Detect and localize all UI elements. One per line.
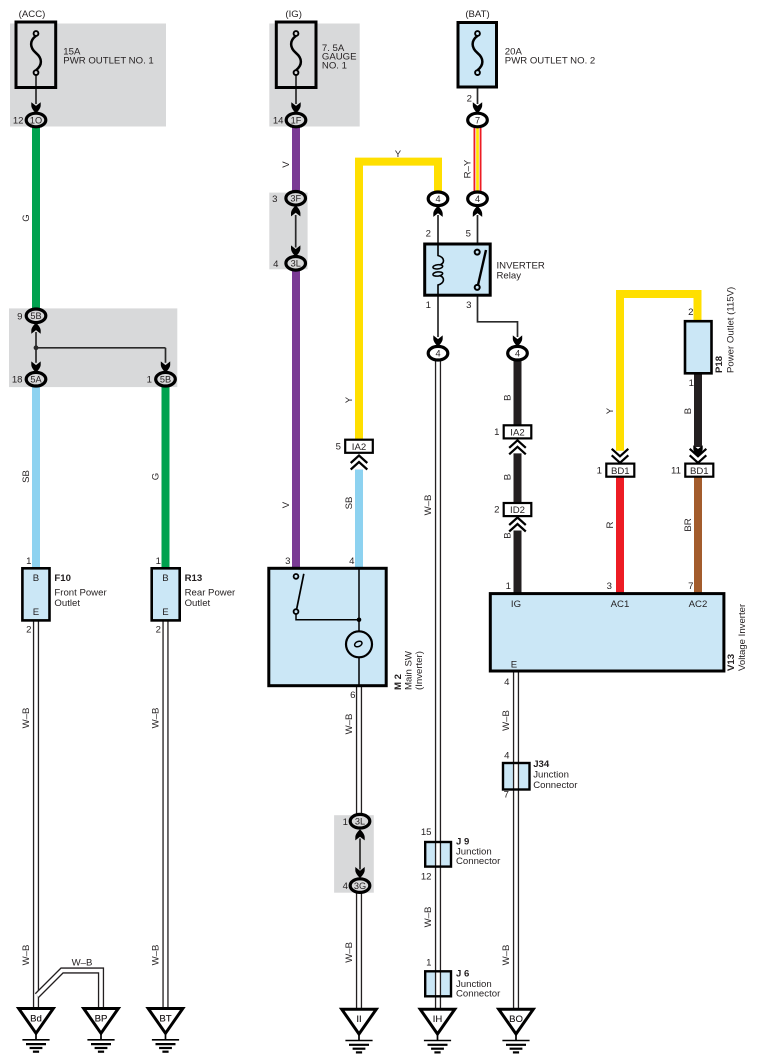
svg-text:1: 1	[426, 300, 431, 311]
svg-text:5: 5	[336, 441, 341, 452]
svg-text:ID2: ID2	[510, 505, 525, 516]
svg-text:B: B	[503, 532, 514, 538]
svg-text:V: V	[281, 501, 292, 508]
svg-text:E: E	[33, 607, 39, 618]
svg-text:1O: 1O	[30, 115, 42, 125]
svg-text:5: 5	[466, 228, 471, 239]
svg-text:1: 1	[494, 427, 499, 438]
svg-text:3L: 3L	[291, 259, 301, 269]
svg-text:IA2: IA2	[510, 428, 524, 439]
svg-text:W–B: W–B	[344, 714, 355, 735]
svg-text:Connector: Connector	[456, 856, 501, 867]
svg-text:BP: BP	[95, 1014, 108, 1025]
svg-text:Connector: Connector	[456, 988, 501, 999]
svg-text:B: B	[503, 394, 514, 400]
svg-text:9: 9	[17, 311, 22, 322]
svg-text:5A: 5A	[30, 375, 42, 385]
svg-text:14: 14	[273, 116, 284, 127]
svg-text:Outlet: Outlet	[185, 598, 211, 609]
svg-text:4: 4	[343, 881, 349, 892]
svg-text:Main SW: Main SW	[404, 650, 415, 690]
svg-text:1: 1	[343, 817, 348, 828]
svg-text:1: 1	[26, 556, 31, 567]
svg-text:E: E	[162, 607, 168, 618]
svg-text:W–B: W–B	[344, 942, 355, 963]
svg-text:4: 4	[504, 751, 510, 762]
svg-text:B: B	[683, 408, 694, 414]
svg-text:IG: IG	[511, 599, 521, 610]
svg-text:BD1: BD1	[611, 466, 630, 477]
svg-text:4: 4	[435, 194, 440, 204]
svg-text:(Inverter): (Inverter)	[414, 651, 425, 690]
svg-text:15: 15	[421, 827, 432, 838]
svg-text:W–B: W–B	[151, 708, 162, 729]
svg-text:2: 2	[26, 624, 31, 635]
svg-text:Connector: Connector	[533, 780, 578, 791]
svg-text:SB: SB	[21, 470, 32, 483]
svg-text:1: 1	[426, 958, 431, 969]
svg-text:12: 12	[421, 872, 432, 883]
svg-text:B: B	[33, 573, 39, 584]
svg-text:B: B	[503, 474, 514, 480]
svg-text:(BAT): (BAT)	[465, 9, 489, 20]
svg-text:W–B: W–B	[21, 708, 32, 729]
svg-text:2: 2	[688, 307, 693, 318]
svg-text:6: 6	[350, 690, 355, 701]
svg-text:V: V	[281, 161, 292, 168]
svg-text:W–B: W–B	[72, 957, 93, 968]
svg-text:3G: 3G	[354, 881, 366, 891]
svg-text:1: 1	[147, 375, 152, 386]
svg-text:SB: SB	[344, 497, 355, 510]
svg-text:1F: 1F	[291, 115, 302, 125]
svg-text:4: 4	[349, 556, 355, 567]
svg-text:R13: R13	[185, 573, 203, 584]
svg-text:(ACC): (ACC)	[19, 9, 46, 20]
svg-text:IH: IH	[433, 1014, 443, 1025]
svg-text:W–B: W–B	[501, 945, 512, 966]
svg-text:Y: Y	[344, 396, 355, 403]
svg-text:NO. 1: NO. 1	[322, 61, 347, 72]
svg-text:2: 2	[494, 505, 499, 516]
svg-text:W–B: W–B	[423, 907, 434, 928]
svg-text:PWR OUTLET NO. 1: PWR OUTLET NO. 1	[63, 56, 153, 67]
svg-text:Relay: Relay	[497, 271, 522, 282]
svg-text:7: 7	[688, 581, 693, 592]
svg-text:W–B: W–B	[423, 495, 434, 516]
svg-text:R: R	[605, 521, 616, 528]
svg-text:4: 4	[435, 349, 440, 359]
svg-text:M 2: M 2	[393, 674, 404, 690]
svg-text:BO: BO	[509, 1014, 523, 1025]
svg-text:18: 18	[12, 375, 23, 386]
svg-text:BT: BT	[159, 1014, 171, 1025]
svg-text:5B: 5B	[30, 311, 41, 321]
svg-text:B: B	[162, 573, 168, 584]
svg-text:4: 4	[475, 194, 480, 204]
svg-text:1: 1	[506, 581, 511, 592]
svg-text:W–B: W–B	[151, 945, 162, 966]
svg-text:7: 7	[475, 115, 480, 125]
svg-text:BD1: BD1	[690, 466, 709, 477]
svg-text:12: 12	[13, 116, 24, 127]
svg-text:AC2: AC2	[689, 599, 708, 610]
svg-text:Power Outlet (115V): Power Outlet (115V)	[726, 287, 737, 373]
svg-text:3: 3	[607, 581, 612, 592]
svg-text:G: G	[151, 473, 162, 480]
svg-text:3: 3	[285, 556, 290, 567]
svg-text:(IG): (IG)	[285, 9, 302, 20]
svg-text:1: 1	[156, 556, 161, 567]
svg-text:3: 3	[466, 300, 471, 311]
svg-text:11: 11	[671, 465, 681, 476]
svg-text:3L: 3L	[355, 817, 365, 827]
svg-text:5B: 5B	[160, 375, 171, 385]
svg-text:2: 2	[426, 228, 431, 239]
svg-text:P18: P18	[714, 355, 725, 373]
svg-text:E: E	[511, 659, 517, 670]
svg-text:Outlet: Outlet	[54, 598, 80, 609]
svg-text:PWR OUTLET NO. 2: PWR OUTLET NO. 2	[505, 56, 595, 67]
svg-text:II: II	[356, 1014, 361, 1025]
svg-text:BR: BR	[683, 518, 694, 531]
svg-text:4: 4	[515, 349, 520, 359]
svg-text:W–B: W–B	[501, 710, 512, 731]
svg-text:Bd: Bd	[30, 1014, 42, 1025]
svg-text:2: 2	[467, 94, 472, 105]
svg-text:W–B: W–B	[21, 945, 32, 966]
svg-text:3F: 3F	[290, 194, 301, 204]
svg-text:2: 2	[156, 624, 161, 635]
svg-text:7: 7	[504, 789, 509, 800]
svg-text:AC1: AC1	[611, 599, 630, 610]
svg-text:V13: V13	[726, 654, 737, 671]
svg-text:IA2: IA2	[352, 442, 366, 453]
svg-text:Y: Y	[605, 407, 616, 414]
svg-text:R–Y: R–Y	[463, 159, 474, 178]
svg-text:3: 3	[272, 194, 277, 205]
svg-text:Y: Y	[395, 149, 402, 160]
svg-text:Voltage Inverter: Voltage Inverter	[737, 603, 748, 671]
svg-text:G: G	[21, 214, 32, 221]
svg-text:4: 4	[504, 677, 510, 688]
svg-text:1: 1	[597, 465, 602, 476]
svg-text:F10: F10	[54, 573, 71, 584]
svg-text:4: 4	[273, 259, 279, 270]
svg-text:1: 1	[689, 378, 694, 389]
